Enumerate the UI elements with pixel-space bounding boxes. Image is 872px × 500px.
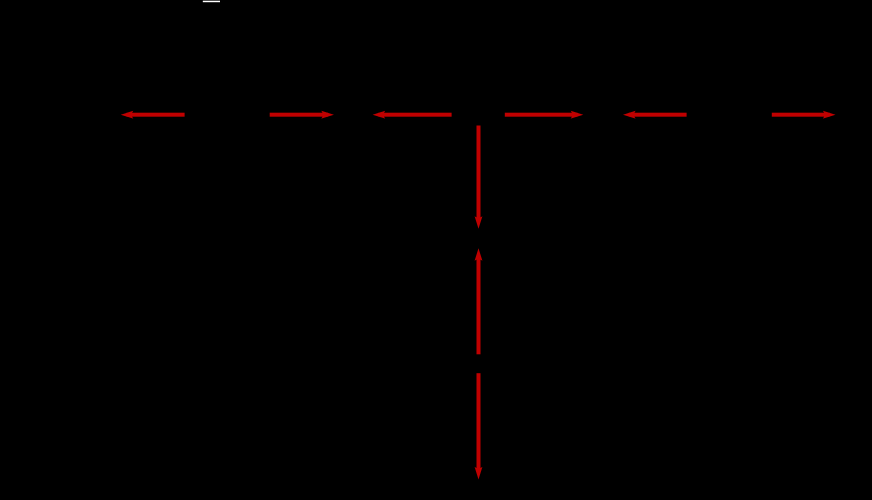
current arrow I4 (top wire, fourth segment, pointing right) [505,111,584,119]
current arrow I8 (center branch, middle segment, pointing up) [475,248,483,354]
current arrow I6 (top wire, right segment, pointing right) [772,111,836,119]
current arrow I7 (center branch, upper segment, pointing down) [475,126,483,229]
current arrow I2 (top wire, second segment, pointing right) [270,111,334,119]
current arrow I9 (center branch, lower segment, pointing down) [475,373,483,479]
label overbar (white) over hidden node label [203,1,220,3]
current arrow I1 (top wire, left segment, pointing left) [121,111,185,119]
current arrow I3 (top wire, third segment, pointing left toward center node) [373,111,452,119]
current arrow I5 (top wire, fifth segment, pointing left) [623,111,687,119]
